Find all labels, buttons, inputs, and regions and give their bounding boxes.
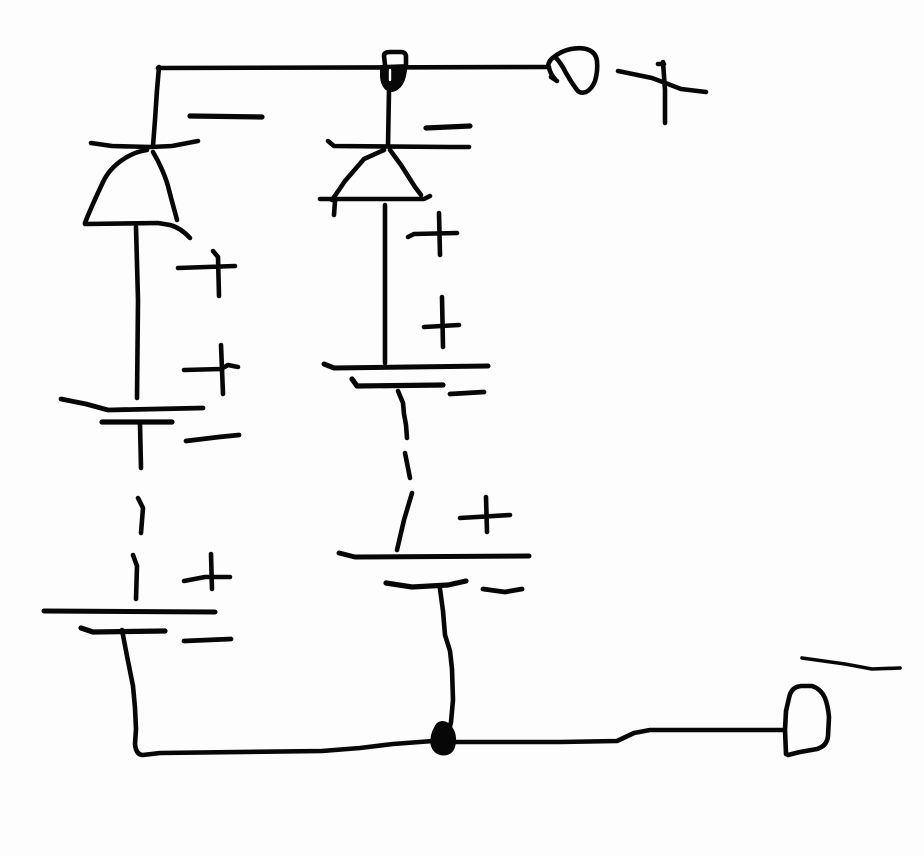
wire pin to bell B2	[388, 90, 389, 146]
switch X vertical line	[658, 62, 665, 123]
dashed wire segment 5	[397, 493, 412, 550]
minus label right of battery B4	[483, 589, 522, 592]
dashed wire segment 1	[138, 498, 143, 533]
pin X1 body blob	[381, 65, 407, 91]
terminal D1 outline	[785, 686, 829, 755]
plus label P3	[184, 554, 230, 589]
wire battery B4 down to junction	[440, 589, 453, 731]
wire top horizontal	[158, 67, 549, 68]
junction blob J1	[432, 723, 455, 754]
minus label right of battery B3	[450, 392, 484, 394]
plus label P5	[424, 297, 459, 347]
bell B2 bottom-left tick	[334, 201, 335, 215]
bell B1 top bar	[91, 141, 198, 147]
battery B1 short plate	[102, 419, 172, 424]
terminal loop T1	[548, 48, 597, 92]
minus label above terminal D1	[802, 658, 900, 669]
plus label P1	[178, 251, 235, 296]
dashed wire segment 3	[398, 391, 407, 438]
battery B1 lower stub	[140, 424, 141, 468]
wire bell B2 to battery B3	[383, 205, 388, 363]
minus label right of bell B2	[426, 126, 470, 128]
plus label P4	[408, 213, 457, 255]
bell B2 bottom rim	[320, 196, 430, 199]
battery B2 short plate	[81, 628, 165, 632]
bell B2 left side	[332, 150, 384, 200]
wire junction to right terminal	[455, 730, 783, 742]
battery B4 long plate	[339, 553, 529, 557]
minus label right of battery B1	[186, 435, 239, 441]
wire left drop from top rail to bell B1	[153, 67, 159, 146]
terminal loop T1 tail	[549, 68, 557, 81]
minus label right of battery B2	[184, 639, 231, 641]
plus label P6	[460, 497, 510, 532]
bell B1 left side	[85, 150, 147, 223]
pin X1 head outline	[384, 52, 406, 65]
bell B1 right side	[153, 152, 177, 220]
switch X cross line	[618, 71, 706, 92]
wire bell B1 to battery B1	[136, 227, 138, 398]
dashed wire segment 4	[405, 453, 410, 478]
plus label P2	[184, 345, 238, 394]
minus label above bell B1	[190, 116, 262, 117]
battery B2 long plate	[44, 611, 215, 612]
wire battery B2 down and along bottom	[122, 630, 433, 755]
bell B2 top bar	[328, 141, 469, 147]
dashed wire segment 2	[133, 555, 137, 599]
pin X1 white notch	[389, 70, 391, 80]
battery B3 short plate	[352, 379, 443, 386]
battery B4 short plate	[386, 581, 466, 587]
bell B2 right side	[390, 150, 421, 195]
battery B3 long plate	[324, 364, 488, 368]
bell B1 bottom rim	[85, 223, 190, 238]
battery B1 long plate	[61, 399, 203, 410]
